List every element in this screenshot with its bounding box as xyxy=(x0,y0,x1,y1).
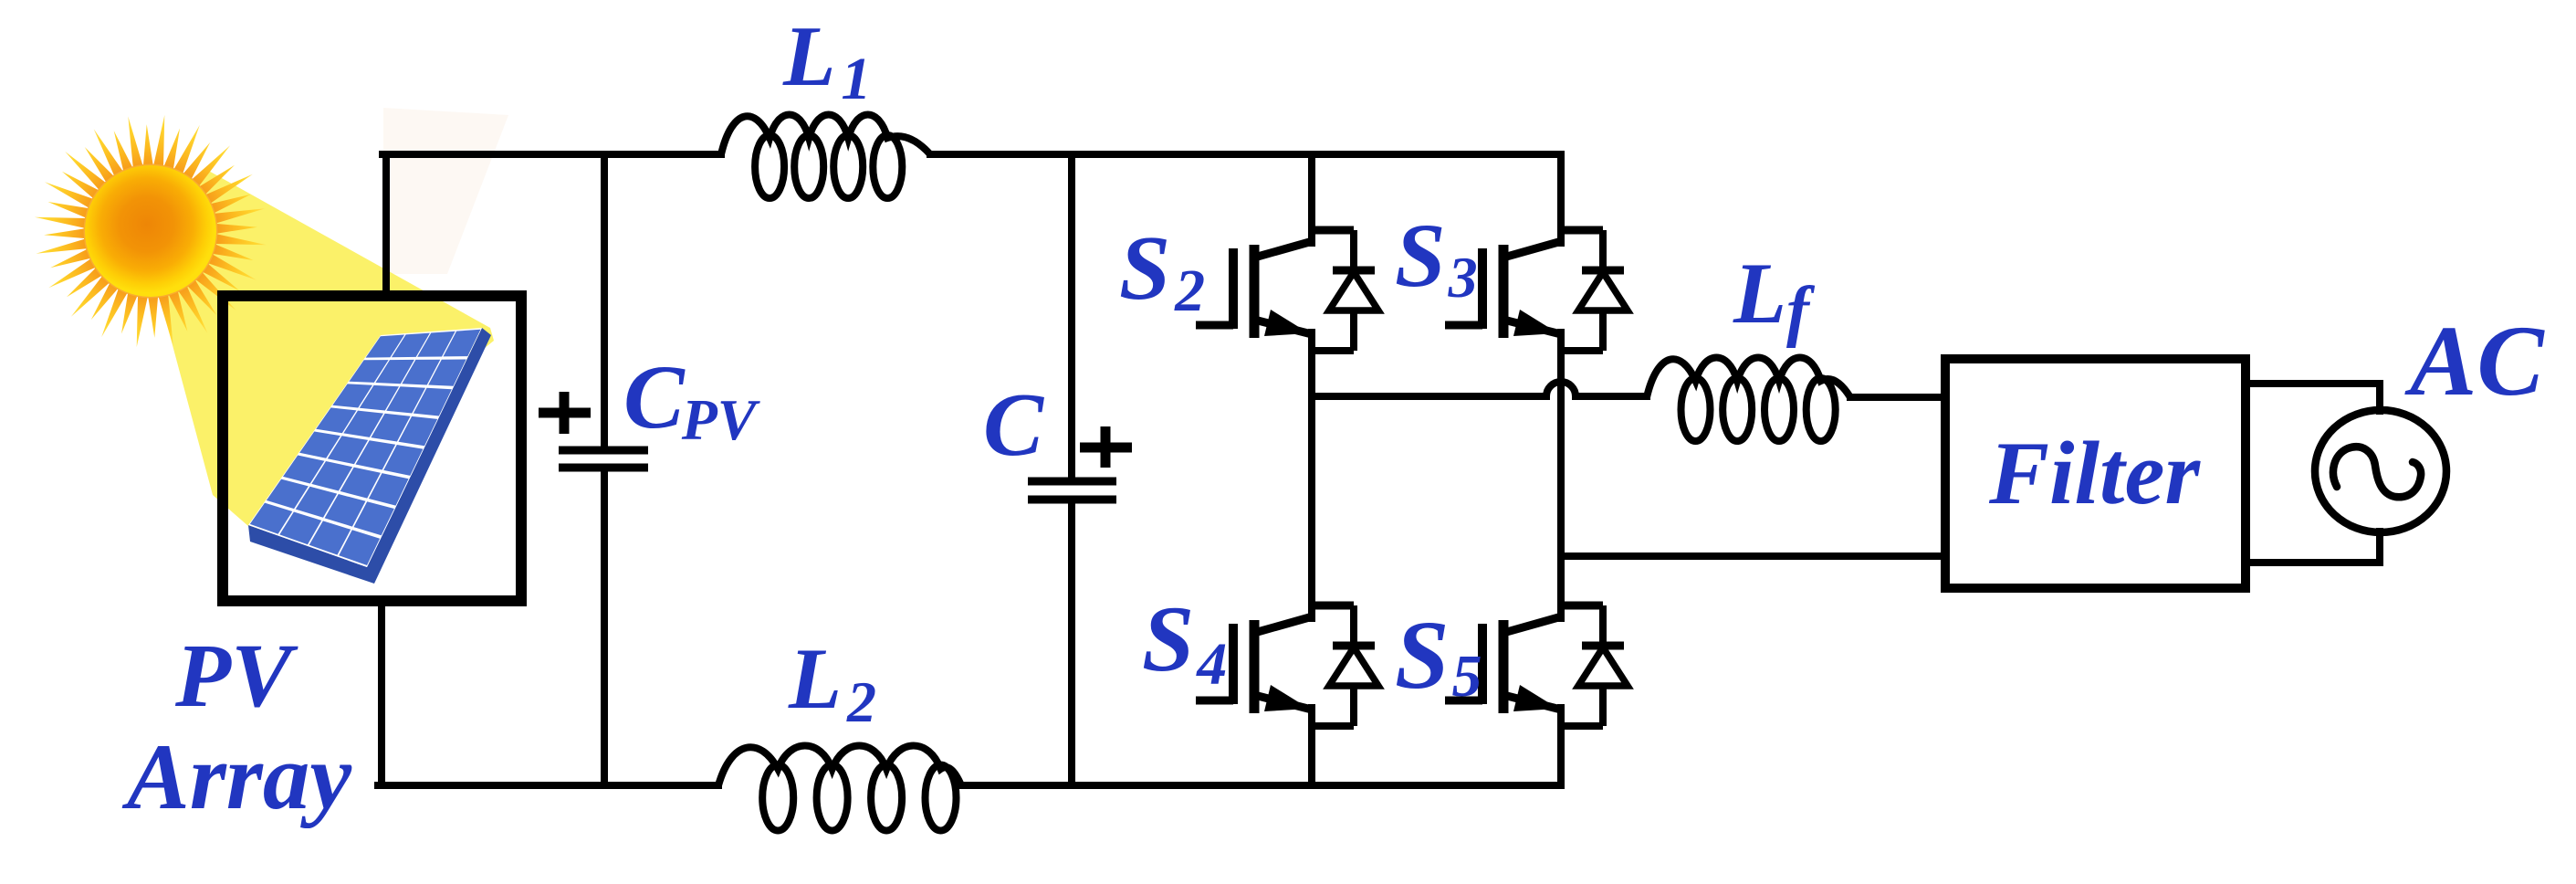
svg-text:Array: Array xyxy=(121,725,352,829)
transistor S5 xyxy=(1445,605,1603,713)
diode of S5 xyxy=(1561,605,1628,726)
wire bottom rail left xyxy=(378,782,718,789)
wire filter to AC top xyxy=(2246,384,2380,411)
sun rays xyxy=(35,115,267,347)
wire bottom rail right xyxy=(961,782,1561,789)
inductor L2 xyxy=(718,746,961,831)
svg-text:AC: AC xyxy=(2404,305,2545,416)
AC sine symbol xyxy=(2333,447,2421,497)
wire C bottom xyxy=(1068,500,1075,785)
diode of S4 xyxy=(1312,605,1378,726)
wire top rail left xyxy=(382,151,721,158)
plus sign Cpv xyxy=(539,392,591,434)
capacitor C xyxy=(1028,481,1116,500)
wire Cpv bottom xyxy=(601,471,608,785)
wire leg1 top xyxy=(1308,154,1315,243)
wire leg1 mid xyxy=(1308,332,1315,618)
diode of S2 xyxy=(1312,230,1378,351)
inductor L1 xyxy=(721,115,930,199)
PV array box xyxy=(223,296,521,601)
transistor S3 xyxy=(1445,230,1603,338)
AC source circle xyxy=(2315,410,2446,532)
svg-text:PV: PV xyxy=(174,625,298,726)
plus sign C xyxy=(1080,426,1132,468)
inductor Lf xyxy=(1647,358,1850,442)
wire leg1 bottom xyxy=(1308,708,1315,785)
svg-text:C: C xyxy=(983,375,1044,475)
wire C top xyxy=(1068,154,1075,481)
wire PV top to rail xyxy=(382,157,390,296)
wire leg2 mid xyxy=(1557,332,1565,618)
wire leg2 bottom xyxy=(1557,708,1565,785)
sun light beam xyxy=(146,169,494,532)
diode of S3 xyxy=(1561,230,1628,351)
capacitor Cpv xyxy=(559,450,648,468)
wire filter to AC bottom xyxy=(2246,531,2380,563)
transistor S2 xyxy=(1196,230,1354,338)
wire top rail right xyxy=(930,151,1561,158)
filter box xyxy=(1945,359,2246,588)
wire bridge mid output with hop xyxy=(1312,382,1647,396)
wire leg2 output to filter xyxy=(1561,552,1945,560)
wire Cpv top xyxy=(601,154,608,447)
transistor S4 xyxy=(1196,605,1354,713)
PV panel 3d edge xyxy=(248,328,491,584)
wire PV bottom xyxy=(378,601,385,785)
PV panel face xyxy=(248,328,482,567)
sun disc xyxy=(84,164,218,299)
wire Lf to filter xyxy=(1850,394,1945,401)
faint light glow xyxy=(383,108,508,274)
svg-text:Filter: Filter xyxy=(1988,424,2201,523)
wire leg2 top xyxy=(1557,154,1565,243)
